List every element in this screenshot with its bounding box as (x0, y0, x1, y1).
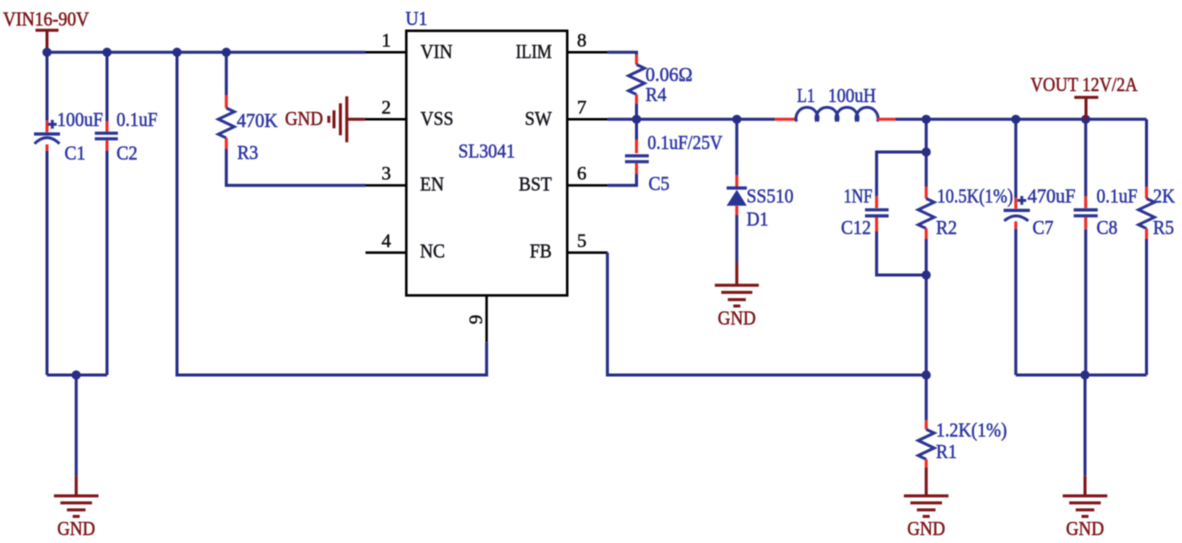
ground GND at VSS pin2 (285, 96, 365, 142)
wire gnd drop right (1084, 375, 1087, 476)
svg-text:4: 4 (382, 231, 392, 252)
node junction R4/SW (632, 115, 641, 124)
svg-text:C8: C8 (1097, 218, 1118, 239)
svg-text:7: 7 (577, 98, 587, 119)
capacitor C12 1NF (841, 152, 926, 275)
svg-text:C7: C7 (1033, 218, 1054, 239)
svg-text:2: 2 (382, 98, 392, 119)
node junction rail2 (172, 48, 181, 57)
svg-text:R1: R1 (936, 442, 957, 463)
node junction C12 top (922, 147, 931, 156)
wire SW out rail (895, 118, 1146, 121)
svg-text:6: 6 (577, 164, 587, 185)
pin 5 stub (567, 231, 607, 253)
svg-text:1.2K(1%): 1.2K(1%) (936, 421, 1007, 442)
pin 3 stub (366, 164, 407, 186)
node junction FB/R1 (922, 370, 931, 379)
svg-text:GND: GND (57, 519, 95, 538)
svg-text:R2: R2 (936, 218, 957, 239)
IC U1 SL3041 body (406, 9, 568, 295)
resistor R2 10.5K (918, 119, 1013, 375)
power port VIN16-90V (3, 9, 89, 52)
svg-text:10.5K(1%): 10.5K(1%) (937, 187, 1013, 208)
svg-text:SS510: SS510 (747, 187, 794, 208)
svg-text:SL3041: SL3041 (458, 142, 515, 163)
ground GND at D1 (715, 262, 759, 330)
svg-text:GND: GND (907, 519, 945, 538)
node junction C7 (1011, 115, 1020, 124)
wire SW rail (608, 118, 775, 121)
svg-text:0.1uF/25V: 0.1uF/25V (648, 133, 723, 154)
node junction bottom-left (72, 370, 81, 379)
svg-text:EN: EN (420, 175, 444, 196)
resistor R4 0.06ohm (608, 52, 693, 119)
svg-text:C5: C5 (649, 174, 670, 195)
ground bottom-right (1063, 496, 1108, 540)
svg-text:GND: GND (285, 109, 323, 130)
svg-text:0.1uF: 0.1uF (1097, 187, 1138, 208)
pin 8 stub (567, 30, 607, 52)
svg-text:3: 3 (382, 164, 392, 185)
svg-text:BST: BST (519, 175, 552, 196)
pin 2 stub (365, 98, 407, 120)
svg-text:VIN16-90V: VIN16-90V (3, 9, 89, 30)
svg-text:1NF: 1NF (844, 187, 873, 208)
svg-text:470uF: 470uF (1028, 187, 1076, 208)
wire rail2 to pin9 (177, 52, 487, 375)
svg-text:8: 8 (577, 30, 587, 51)
svg-text:L1: L1 (797, 86, 815, 107)
svg-text:D1: D1 (747, 210, 769, 231)
node junction R3 (222, 48, 231, 57)
node junction VOUT/C8 (1081, 115, 1090, 124)
svg-text:2K: 2K (1153, 187, 1175, 208)
svg-text:C2: C2 (117, 143, 138, 164)
svg-text:U1: U1 (406, 9, 428, 30)
pin 4 stub (366, 231, 407, 253)
svg-text:R5: R5 (1153, 218, 1174, 239)
wire bottom-right gnd net (1016, 374, 1147, 377)
resistor R3 470K (218, 52, 365, 185)
svg-text:C1: C1 (65, 143, 86, 164)
svg-text:SW: SW (525, 109, 553, 130)
svg-text:GND: GND (718, 309, 756, 330)
capacitor C5 0.1uF/25V (608, 119, 723, 195)
inductor L1 100uH (775, 86, 896, 122)
node junction C12 bottom (922, 270, 931, 279)
svg-text:VOUT 12V/2A: VOUT 12V/2A (1031, 75, 1138, 96)
wire VIN top rail (47, 51, 366, 54)
svg-text:C12: C12 (841, 218, 871, 239)
node junction D1/SW (732, 115, 741, 124)
node junction VIN/C1 (42, 48, 51, 57)
wire FB net (607, 253, 926, 375)
node junction C2 (102, 48, 111, 57)
pin 1 stub (366, 30, 407, 52)
svg-text:GND: GND (1066, 519, 1104, 538)
capacitor C7 470uF polarized (1004, 119, 1076, 375)
diode D1 SS510 (727, 119, 794, 262)
svg-text:FB: FB (530, 241, 552, 262)
capacitor C1 100uF polarized (34, 52, 103, 375)
wire gnd drop left (75, 375, 78, 476)
node junction bottom-right (1080, 370, 1089, 379)
capacitor C8 0.1uF (1074, 119, 1138, 375)
svg-text:NC: NC (420, 241, 445, 262)
pin 7 stub (567, 98, 607, 120)
pin 9 stub (466, 295, 487, 342)
svg-text:0.1uF: 0.1uF (117, 110, 158, 131)
svg-text:VSS: VSS (421, 109, 454, 130)
svg-text:5: 5 (577, 231, 587, 252)
ground GND at R1 (904, 467, 949, 540)
svg-text:9: 9 (466, 315, 487, 325)
svg-text:100uH: 100uH (828, 86, 876, 107)
svg-text:0.06Ω: 0.06Ω (646, 65, 693, 86)
svg-text:100uF: 100uF (57, 110, 103, 131)
ground bottom-left (54, 496, 99, 540)
svg-text:R3: R3 (237, 143, 258, 164)
svg-text:1: 1 (382, 30, 392, 51)
resistor R1 1.2K (918, 375, 1007, 467)
power port VOUT 12V/2A (1031, 75, 1138, 119)
svg-text:ILIM: ILIM (516, 42, 552, 63)
svg-text:470K: 470K (237, 111, 278, 132)
wire bottom-left gnd net (47, 374, 107, 377)
node junction R2 top (922, 115, 931, 124)
svg-text:R4: R4 (646, 85, 667, 106)
capacitor C2 0.1uF (95, 52, 158, 375)
resistor R5 2K (1139, 119, 1176, 375)
svg-text:VIN: VIN (421, 42, 453, 63)
pin 6 stub (567, 164, 607, 186)
